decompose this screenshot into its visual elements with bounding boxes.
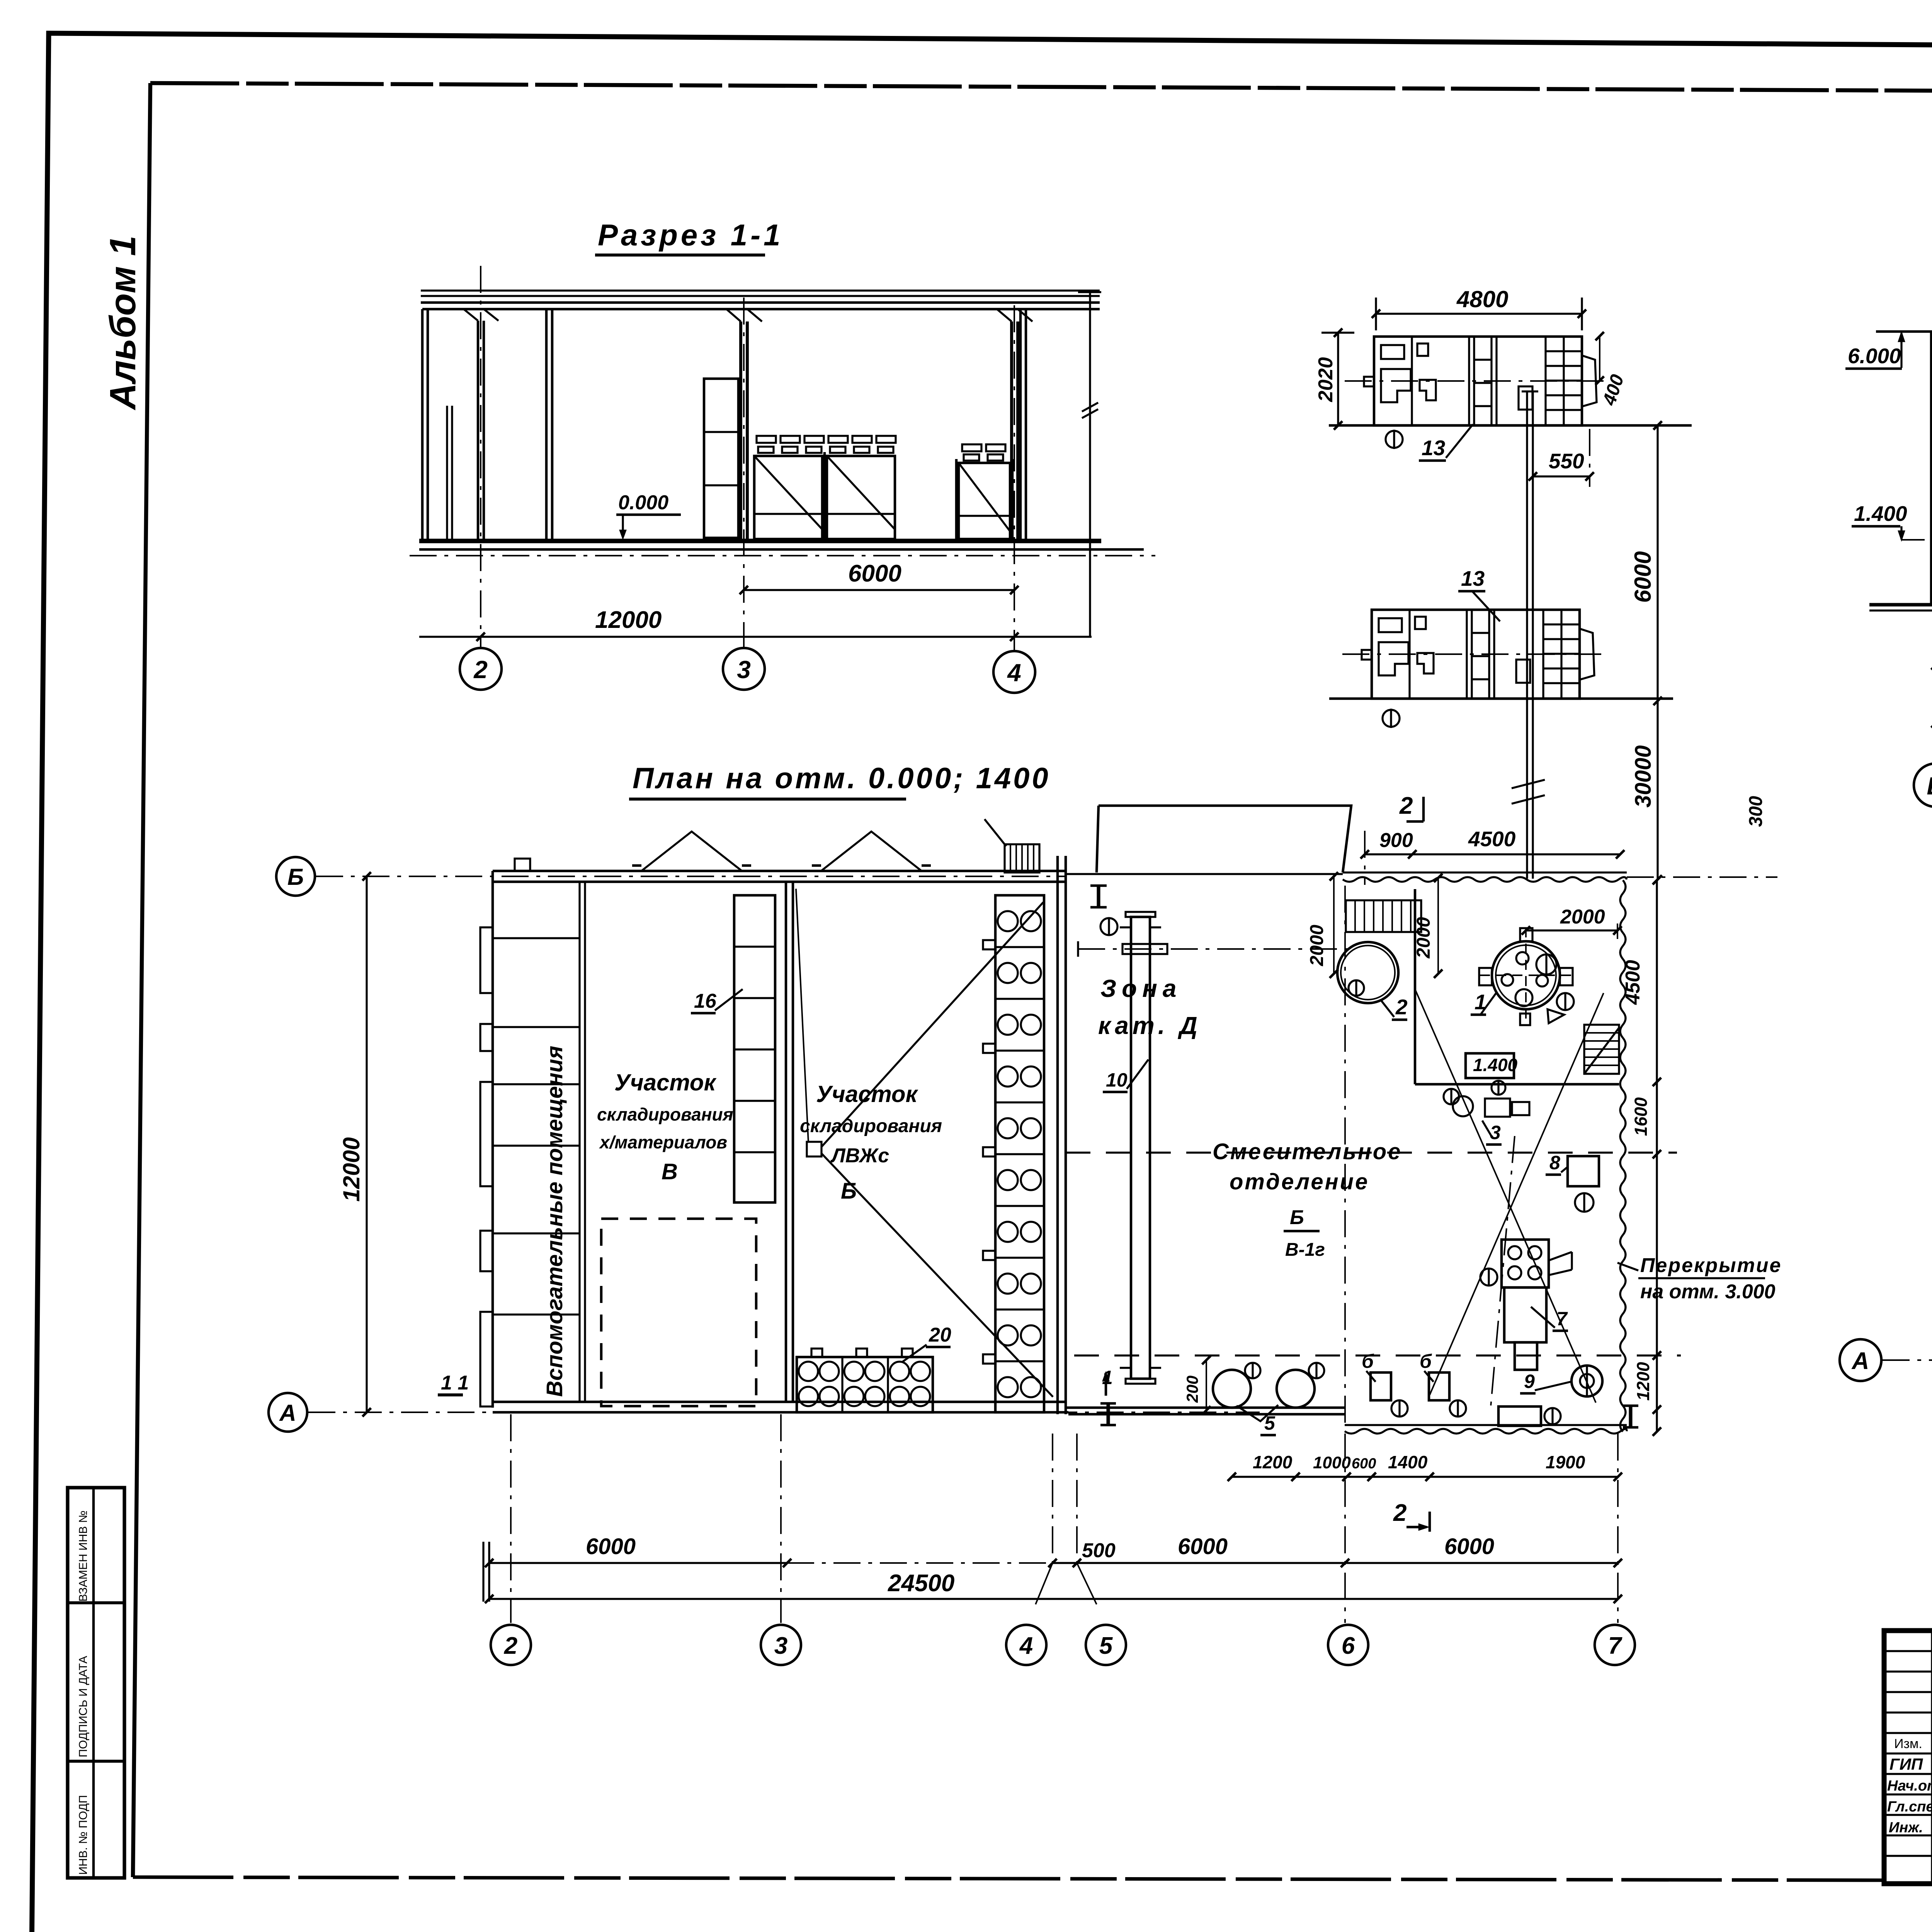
title block outer frame (1884, 1631, 1932, 1884)
svg-text:ИНВ. № ПОДП: ИНВ. № ПОДП (77, 1795, 90, 1875)
conveyor 10 (vertical duct) (1131, 917, 1150, 1379)
svg-text:500: 500 (1082, 1539, 1116, 1562)
svg-text:2020: 2020 (1315, 357, 1337, 402)
pump group 3 (plan) (1453, 1096, 1473, 1116)
section mark 1 (top of hall) (1097, 886, 1100, 907)
left wall of section (421, 309, 424, 540)
svg-text:13: 13 (1422, 436, 1445, 460)
dim 2000 above mixer 1 (1526, 929, 1617, 931)
pump at mixer 1 (1557, 993, 1574, 1010)
mixers 5 (plan bottom) (1213, 1370, 1251, 1408)
dim 2000 left of mixer 1 (rotated) (1437, 878, 1439, 974)
machine unit 13 (lower plan view) (1372, 610, 1580, 699)
left facade pilasters (480, 927, 493, 993)
svg-text:600: 600 (1352, 1456, 1376, 1472)
svg-text:200: 200 (1183, 1376, 1201, 1403)
svg-text:складирования: складирования (800, 1116, 942, 1136)
svg-text:Разрез 1-1: Разрез 1-1 (598, 218, 783, 252)
svg-text:складирования: складирования (597, 1104, 733, 1124)
machine 13 upper position circle (1386, 431, 1403, 448)
vertical dim 2000 at stairs (1333, 876, 1335, 974)
axis line 3 (743, 298, 745, 648)
svg-text:5: 5 (1264, 1412, 1276, 1434)
svg-text:13: 13 (1461, 566, 1485, 590)
canopy over gate (1097, 806, 1351, 872)
section floor line (419, 539, 1101, 543)
svg-text:ЛВЖс: ЛВЖс (830, 1145, 889, 1167)
mixer 1 (round, plan) (1492, 941, 1560, 1009)
svg-text:5: 5 (1099, 1633, 1113, 1659)
balcony edge at 1.400 (1414, 889, 1417, 1084)
crate stack group 1 boxes (754, 456, 822, 539)
svg-text:2: 2 (504, 1633, 517, 1659)
inner drawing frame bottom (133, 1877, 1885, 1880)
svg-text:В-1г: В-1г (1285, 1240, 1325, 1260)
conveyor feed inlet (1122, 944, 1167, 954)
svg-text:1400: 1400 (1388, 1452, 1428, 1472)
axis bubble 2 (460, 648, 502, 690)
svg-text:Альбом 1: Альбом 1 (102, 236, 143, 410)
svg-text:А: А (279, 1400, 296, 1426)
svg-text:Гл.спец: Гл.спец (1887, 1799, 1932, 1815)
svg-text:1200: 1200 (1633, 1362, 1653, 1401)
svg-text:2000: 2000 (1413, 917, 1434, 959)
axis bubble Б (section 2-2) (1914, 764, 1932, 807)
svg-text:300: 300 (1746, 796, 1766, 827)
exterior stair at top right corner (1005, 844, 1039, 872)
shelving rack 16 (734, 895, 775, 1202)
plan bottom dim row (6000 / 500 6000 6000) (489, 1562, 787, 1564)
column on axis 3 (739, 321, 742, 540)
svg-text:20: 20 (929, 1324, 951, 1346)
dim 200 (rotated small) (1206, 1360, 1207, 1410)
svg-text:ГИП: ГИП (1889, 1755, 1923, 1773)
tray below 9 (1498, 1406, 1541, 1426)
svg-text:1.400: 1.400 (1473, 1055, 1518, 1075)
axis bubble 3 (723, 648, 765, 690)
svg-text:Инж.: Инж. (1889, 1820, 1923, 1836)
hall axis dashed line (floor edge above) (1066, 1151, 1677, 1153)
plan building left wall (492, 871, 494, 1408)
section 1-1 roof beam line (422, 308, 1100, 311)
svg-text:550: 550 (1549, 449, 1584, 473)
axis bubble 4 (993, 651, 1035, 693)
svg-text:1600: 1600 (1631, 1097, 1651, 1136)
axis bubble 3 (plan) (761, 1625, 801, 1665)
inner drawing frame top (150, 83, 1932, 94)
mixing hall west wall (axes 4-5) (1056, 856, 1059, 1414)
svg-text:Перекрытие: Перекрытие (1640, 1254, 1782, 1277)
bin 8 (plan) (1568, 1156, 1599, 1186)
conveyor axis line (vertical) (1526, 391, 1528, 879)
intermediate column (545, 309, 548, 540)
svg-text:Б: Б (287, 864, 304, 890)
svg-text:9: 9 (1524, 1371, 1535, 1392)
corridor inner wall (578, 882, 580, 1402)
svg-text:6000: 6000 (586, 1534, 636, 1559)
svg-text:2: 2 (1395, 995, 1408, 1019)
equipment axis line through conveyor (1078, 948, 1352, 950)
svg-text:Зона: Зона (1100, 975, 1182, 1002)
svg-text:3: 3 (737, 656, 751, 684)
svg-text:1 1: 1 1 (441, 1372, 469, 1394)
axis bubble 7 (plan) (1595, 1625, 1635, 1665)
svg-text:1200: 1200 (1253, 1452, 1293, 1472)
barrel rack 20 (bottom) (797, 1357, 933, 1412)
svg-text:Нач.отд.: Нач.отд. (1887, 1778, 1932, 1794)
section 2-2 floor line (1869, 603, 1932, 606)
level line 1.400 dashed (1901, 539, 1932, 541)
svg-text:х/материалов: х/материалов (599, 1132, 727, 1152)
crate stack group 2 box (959, 463, 1010, 539)
mixer 2 (round, plan) (1337, 942, 1398, 1003)
svg-text:Вспомогательные помещения: Вспомогательные помещения (542, 1046, 567, 1397)
mill unit 7 (plan) (1502, 1240, 1549, 1287)
svg-text:Участок: Участок (816, 1081, 918, 1107)
svg-text:4: 4 (1007, 659, 1021, 687)
svg-text:на отм. 3.000: на отм. 3.000 (1640, 1281, 1776, 1303)
machine unit 13 (upper plan view) (1374, 337, 1582, 425)
svg-text:Б: Б (1290, 1206, 1304, 1229)
svg-text:30000: 30000 (1631, 745, 1656, 808)
axis bubble 4 (plan) (1006, 1625, 1046, 1665)
section mark 1 (bottom right of hall) (1629, 1406, 1632, 1427)
section 1-1 roof slab lines (421, 289, 1100, 291)
interior partition post in section 1-1 (446, 406, 448, 540)
right wall of section (1019, 309, 1022, 540)
dashed storage area (601, 1219, 756, 1406)
door swing 2 on top wall (821, 832, 922, 871)
svg-text:12000: 12000 (338, 1137, 364, 1202)
gate sill line (1066, 873, 1343, 875)
svg-text:2000: 2000 (1307, 925, 1327, 966)
svg-text:16: 16 (694, 990, 717, 1012)
svg-text:6000: 6000 (1630, 551, 1656, 603)
small dim row 1200/1000/600/1400 (1232, 1476, 1618, 1478)
svg-text:4500: 4500 (1622, 960, 1644, 1005)
interior stairs (north wall) (1346, 900, 1421, 932)
conveyor line break marks (1512, 780, 1545, 788)
storage cabinet in section (704, 379, 738, 538)
dimension 4800 over machine 13 (1376, 313, 1582, 315)
projection diagonals across hall (1415, 989, 1596, 1403)
storage partition wall (785, 882, 787, 1402)
mixing hall south wall (1066, 1406, 1345, 1409)
marker square on wall (807, 1142, 821, 1156)
plan axis line Б (316, 876, 1066, 877)
title block signature table verticals (1931, 1631, 1932, 1884)
svg-text:Изм.: Изм. (1894, 1736, 1922, 1751)
axis bubble 6 (plan) (1328, 1625, 1368, 1665)
svg-text:ПОДПИСЬ И ДАТА: ПОДПИСЬ И ДАТА (77, 1656, 90, 1757)
axis line 4 (1014, 305, 1015, 651)
svg-text:2: 2 (1399, 793, 1413, 819)
svg-text:900: 900 (1379, 829, 1413, 852)
hall lower dashed line (1074, 1354, 1681, 1356)
mixing hall south wall zigzag part (1345, 1424, 1627, 1426)
dimension 2020 left of machine 13 (1337, 333, 1339, 425)
svg-text:3: 3 (774, 1633, 787, 1659)
inner drawing frame left (133, 83, 150, 1877)
svg-text:В: В (662, 1159, 678, 1184)
plan axis line А (308, 1412, 1260, 1413)
dimension 12000 (axes 2-4) (419, 636, 1092, 638)
agitator 9 (plan) (1571, 1366, 1602, 1396)
svg-text:10: 10 (1106, 1069, 1128, 1091)
svg-text:2: 2 (1393, 1500, 1406, 1526)
plan 3.000 axis А (1840, 1339, 1881, 1381)
plan overall dim 24500 (489, 1598, 1618, 1600)
svg-text:б: б (1362, 1350, 1374, 1372)
svg-text:Участок: Участок (614, 1070, 717, 1095)
tanks 6 6 (plan) (1371, 1372, 1391, 1400)
column on axis 4 (1010, 321, 1013, 540)
svg-text:8: 8 (1549, 1152, 1560, 1173)
svg-text:4: 4 (1019, 1633, 1033, 1659)
barrel rack column (east wall of LVZh room) (995, 895, 1044, 1412)
svg-text:1.400: 1.400 (1854, 502, 1907, 526)
svg-text:2: 2 (473, 656, 488, 684)
roof vent on top wall (515, 859, 530, 871)
axis line 2 (480, 266, 481, 648)
svg-text:1900: 1900 (1546, 1452, 1585, 1472)
svg-text:12000: 12000 (595, 607, 662, 633)
crate stack group 2 lids (962, 444, 981, 451)
crate stack group 1 lids (757, 436, 776, 443)
axis bubble Б (plan) (276, 857, 315, 896)
corridor partition stubs (493, 937, 580, 939)
hall right vertical dim chain (1656, 880, 1658, 1432)
svg-text:ВЗАМЕН ИНВ №: ВЗАМЕН ИНВ № (77, 1510, 90, 1602)
svg-text:6000: 6000 (848, 560, 901, 587)
vertical dimension 12000 (plan) (366, 876, 367, 1412)
svg-text:План на отм. 0.000; 1400: План на отм. 0.000; 1400 (633, 762, 1051, 795)
svg-text:24500: 24500 (888, 1570, 954, 1597)
mixing hall east wall (zigzag, axis 7) (1620, 880, 1626, 1432)
dimension 400 (rotated) (1599, 336, 1600, 381)
svg-text:6000: 6000 (1444, 1534, 1494, 1559)
svg-text:7: 7 (1608, 1633, 1622, 1659)
vertical dimension 6000 (1656, 425, 1658, 701)
dimension 6000 (axes 3-4) (744, 589, 1014, 591)
svg-text:6000: 6000 (1178, 1534, 1228, 1559)
svg-text:б: б (1420, 1350, 1432, 1372)
axis 6 line through hall (1344, 886, 1346, 1426)
plan building bottom wall (493, 1401, 1066, 1403)
svg-text:Б: Б (1927, 772, 1932, 800)
svg-text:отделение: отделение (1230, 1169, 1369, 1194)
svg-text:6: 6 (1342, 1633, 1355, 1659)
roof haunches at columns (464, 309, 498, 321)
svg-text:0.000: 0.000 (618, 492, 668, 514)
valve symbol at conveyor top (1100, 918, 1117, 935)
left margin stamp table (68, 1488, 124, 1878)
mixing hall north wall (zigzag) (1343, 871, 1627, 873)
right height dim line with break (1089, 292, 1091, 637)
axis bubble 5 (plan) (1086, 1625, 1126, 1665)
svg-text:3: 3 (1490, 1122, 1501, 1143)
svg-text:2000: 2000 (1560, 906, 1605, 928)
top dim 900/4500 (1365, 853, 1620, 855)
machine 13 upper base line (1329, 424, 1692, 427)
column on axis 2 (477, 321, 480, 540)
door swing 1 on top wall (641, 832, 742, 871)
machine 13 lower base line (1329, 697, 1673, 700)
stairs to balcony (hatched) (1584, 1025, 1619, 1074)
section 2-2 left wall (axis Б) (1930, 332, 1932, 606)
title block signature table rows (1884, 1650, 1932, 1652)
svg-text:4800: 4800 (1456, 286, 1508, 312)
vertical dimension 30000 (1656, 701, 1658, 879)
axis bubble А (plan) (269, 1393, 307, 1432)
plan axis drop lines (510, 1414, 512, 1623)
svg-text:кат. Д: кат. Д (1098, 1012, 1201, 1039)
svg-text:А: А (1851, 1348, 1869, 1374)
svg-text:4500: 4500 (1468, 827, 1516, 851)
machine 13 lower position circle (1383, 710, 1400, 727)
leader diagonals in LVZh room (821, 902, 1043, 1147)
axis bubble 2 (plan) (491, 1625, 531, 1665)
section 2-2 ceiling line (1876, 330, 1932, 333)
svg-text:6.000: 6.000 (1848, 344, 1901, 368)
level box 1.400 (plan) (1466, 1053, 1514, 1078)
plan building top wall (493, 870, 1066, 872)
